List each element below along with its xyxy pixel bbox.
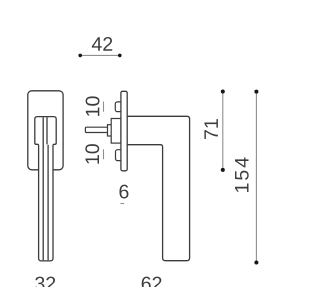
front view neck and grip outline [35,117,56,261]
dim 42 right dot [118,54,122,58]
dim 71 line [222,92,224,170]
clip mask bottom [0,287,286,302]
dim label 62 (clipped) [142,277,162,291]
dim 154 top dot [254,90,258,94]
dim 154 bottom dot [254,261,258,265]
dim tick 6 [120,203,124,205]
front grip inner line left [42,117,44,260]
dim label 154 (rotated) [235,158,249,192]
side view rose plate [121,91,127,171]
side view bottom screw lug [116,150,122,161]
dim 154 line [255,92,257,263]
dim tick 10 top [103,102,105,112]
front view rose plate [28,91,63,170]
dim label 32 (clipped) [35,277,55,291]
dim label 71 (rotated) [204,119,217,139]
side view collar [108,125,112,136]
side view handle L outline [127,116,189,260]
dim tick 10 bottom [103,149,105,159]
dim 71 top dot [221,90,225,94]
dim label 10 bottom (rotated) [85,144,99,164]
front neck inner line right [46,117,48,144]
side view spindle rod [85,127,108,132]
dim label 42 [92,37,112,51]
dim 71 bottom dot [221,168,225,172]
dim label 10 top (rotated) [86,96,100,116]
side view top screw lug [115,102,122,112]
front grip inner line right [47,145,49,260]
side view hub block [111,119,121,144]
dim 42 line [80,54,120,56]
dim label 6 [119,185,128,199]
dim 42 left dot [78,54,82,58]
